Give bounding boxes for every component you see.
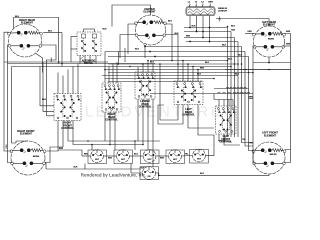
svg-text:BLK: BLK — [228, 58, 233, 60]
svg-text:BLK: BLK — [197, 73, 202, 75]
svg-text:RED: RED — [160, 158, 165, 160]
svg-text:RED: RED — [59, 148, 64, 150]
svg-text:ELEMENT: ELEMENT — [20, 132, 33, 136]
svg-text:RED WH: RED WH — [270, 154, 278, 156]
svg-text:CONTROL: CONTROL — [139, 104, 152, 108]
svg-text:GRD: GRD — [208, 2, 213, 4]
svg-text:BLK: BLK — [102, 29, 107, 31]
svg-text:BLK: BLK — [141, 168, 146, 170]
svg-text:BLK: BLK — [48, 31, 53, 33]
svg-text:BLK: BLK — [174, 33, 179, 35]
svg-text:Rendered by LeadVenture, Inc.: Rendered by LeadVenture, Inc. — [81, 172, 147, 178]
svg-text:RED: RED — [186, 35, 191, 37]
svg-text:RED: RED — [6, 144, 8, 149]
svg-text:BLK: BLK — [42, 99, 47, 101]
svg-text:BLK: BLK — [200, 173, 205, 175]
svg-text:GRN: GRN — [286, 44, 291, 46]
svg-text:CONTROL: CONTROL — [182, 112, 195, 116]
svg-text:BLK: BLK — [222, 44, 227, 46]
svg-text:CONTROL: CONTROL — [105, 117, 118, 121]
svg-text:RED: RED — [108, 158, 113, 160]
svg-text:ELEMENT: ELEMENT — [21, 21, 34, 25]
svg-text:TAN: TAN — [231, 29, 236, 32]
svg-text:BLK: BLK — [135, 48, 140, 50]
svg-text:BLK: BLK — [235, 73, 240, 75]
svg-text:ELEMENT: ELEMENT — [264, 133, 277, 137]
svg-text:GRN: GRN — [286, 31, 291, 33]
svg-text:ELEMENT: ELEMENT — [143, 10, 156, 14]
svg-text:BLK: BLK — [15, 16, 20, 18]
svg-text:RED: RED — [84, 154, 89, 156]
svg-text:RATING: RATING — [33, 155, 40, 158]
svg-text:CONTROL: CONTROL — [219, 139, 232, 143]
svg-text:RED: RED — [200, 67, 205, 69]
svg-text:CONDUIT: CONDUIT — [218, 10, 228, 12]
svg-text:BLK: BLK — [168, 20, 173, 22]
svg-text:BLK: BLK — [150, 62, 155, 64]
svg-text:BLK: BLK — [231, 25, 236, 27]
svg-text:ORN: ORN — [247, 31, 252, 33]
svg-text:BLK: BLK — [191, 25, 196, 27]
svg-text:BLK: BLK — [134, 154, 139, 156]
svg-text:BLK: BLK — [205, 62, 210, 64]
svg-text:BLK: BLK — [238, 54, 243, 56]
svg-text:BLK: BLK — [74, 166, 79, 168]
